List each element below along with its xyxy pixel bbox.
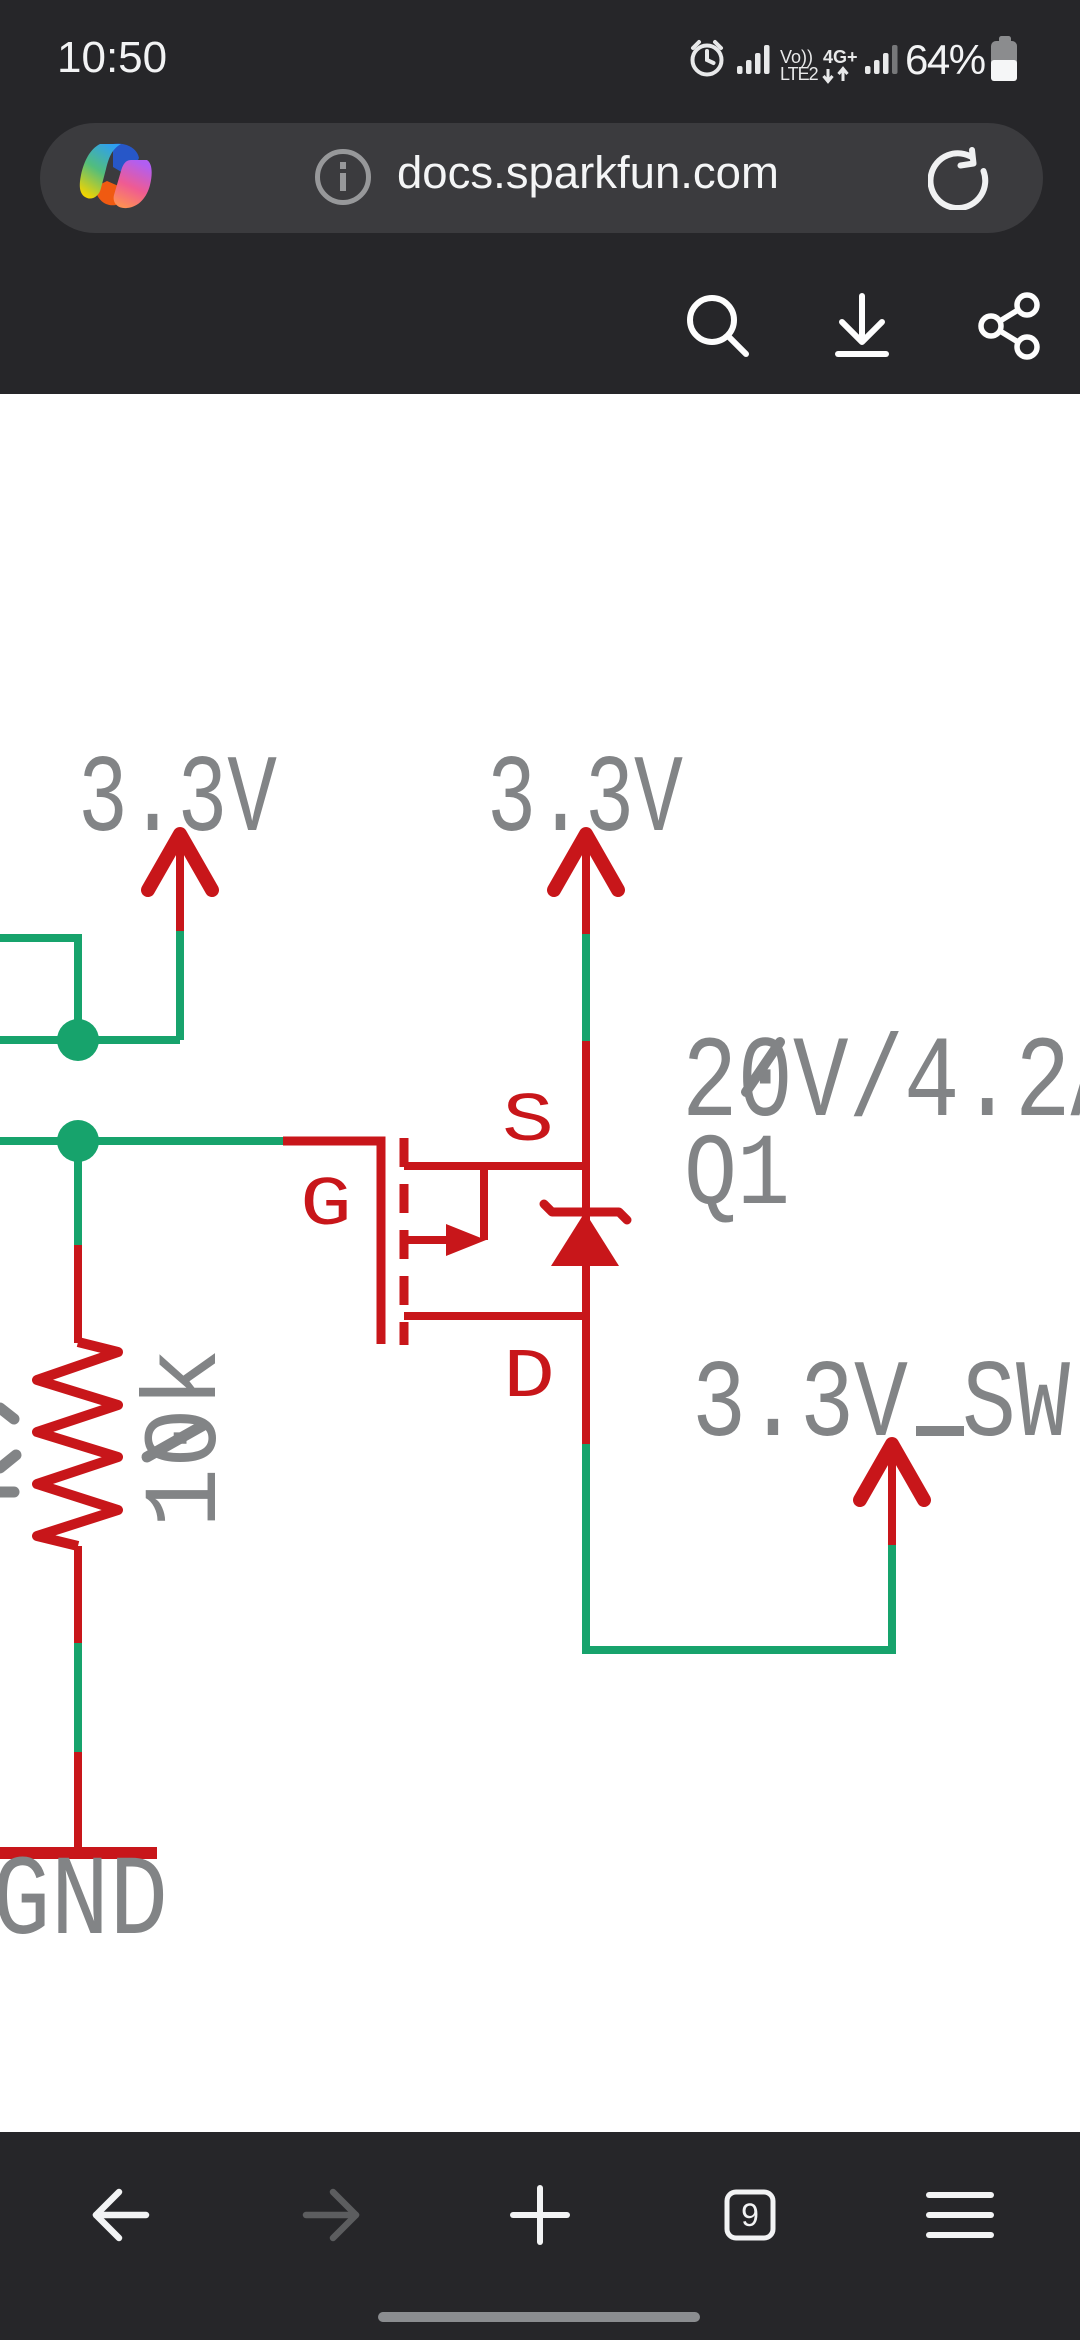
svg-text:3.3V SW: 3.3V SW xyxy=(692,1344,1070,1469)
pin D lead xyxy=(404,1312,586,1320)
wire: horizontal net into arrow1 (green) xyxy=(0,1036,180,1044)
schematic content xyxy=(0,394,1080,2132)
wire: top-left L (green) xyxy=(0,938,78,1040)
svg-text:4G+: 4G+ xyxy=(823,47,858,67)
junction node A xyxy=(57,1019,99,1061)
main vertical S-D line xyxy=(582,1041,590,1444)
svg-text:GND: GND xyxy=(0,1839,168,1968)
battery icon xyxy=(990,36,1020,82)
back arrow xyxy=(96,2192,146,2238)
wire: gate net red segment into Q1 gate xyxy=(283,1141,381,1344)
junction node B xyxy=(57,1120,99,1162)
copilot logo xyxy=(79,141,153,211)
channel dashed line xyxy=(400,1138,409,1345)
svg-text:D: D xyxy=(503,1339,555,1418)
wire: gate net horizontal (green) xyxy=(0,1137,283,1145)
body diode of Q1 xyxy=(544,1204,627,1220)
top browser chrome xyxy=(0,0,1080,394)
resistor R 10k zigzag xyxy=(37,1342,118,1546)
svg-text:LTE2: LTE2 xyxy=(780,64,819,84)
pin S lead xyxy=(404,1162,586,1170)
status bar time xyxy=(57,33,167,83)
supply arrow 3.3V right xyxy=(554,833,618,934)
signal bars 2 xyxy=(865,45,898,74)
supply arrow 3.3V_SW xyxy=(860,1443,924,1545)
bulk connection xyxy=(480,1166,488,1240)
svg-text:Q1: Q1 xyxy=(684,1118,790,1234)
plus xyxy=(513,2188,567,2242)
forward arrow xyxy=(306,2192,356,2238)
info icon xyxy=(314,148,372,206)
URL pill xyxy=(40,123,1043,233)
hamburger menu xyxy=(929,2195,991,2235)
bulk arrowhead xyxy=(446,1224,486,1256)
reload icon xyxy=(928,144,994,210)
wire: right 3.3V stem (green) xyxy=(582,934,590,1041)
wire: left 3.3V stem (green) xyxy=(176,931,184,1040)
signal bars 1 xyxy=(737,45,770,74)
svg-text:S: S xyxy=(502,1083,554,1162)
wire: drain to 3.3V_SW net (green) xyxy=(586,1444,892,1650)
tab counter xyxy=(727,2192,773,2238)
wire: resistor bottom lead (red/green/red) xyxy=(74,1546,82,1643)
toolbar icons xyxy=(660,280,1080,380)
bottom navigation bar xyxy=(0,2132,1080,2340)
slash over zero of 10k xyxy=(147,1426,202,1457)
resistor refdes fragments (cut off at screen edge) xyxy=(0,1408,16,1492)
search xyxy=(690,298,746,354)
svg-text:G: G xyxy=(300,1167,352,1246)
url text xyxy=(397,147,779,199)
svg-text:9: 9 xyxy=(741,2197,759,2233)
transistor Q1 P-MOSFET xyxy=(404,1138,586,1345)
share xyxy=(981,295,1037,357)
supply arrow 3.3V left xyxy=(148,833,212,931)
alarm clock xyxy=(693,42,722,75)
wire: below node B to resistor (green then red) xyxy=(74,1141,82,1245)
ground symbol xyxy=(0,1847,157,1859)
home indicator xyxy=(378,2312,700,2322)
status bar icons xyxy=(680,24,1030,94)
download xyxy=(838,296,886,354)
slash over zero of 20V xyxy=(746,1042,780,1092)
